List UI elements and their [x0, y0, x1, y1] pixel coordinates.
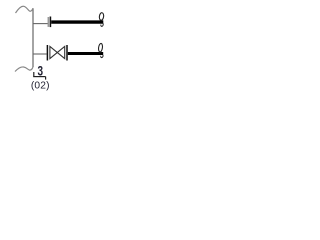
svg-text:3: 3 — [38, 63, 44, 79]
svg-text:(02): (02) — [31, 80, 50, 91]
